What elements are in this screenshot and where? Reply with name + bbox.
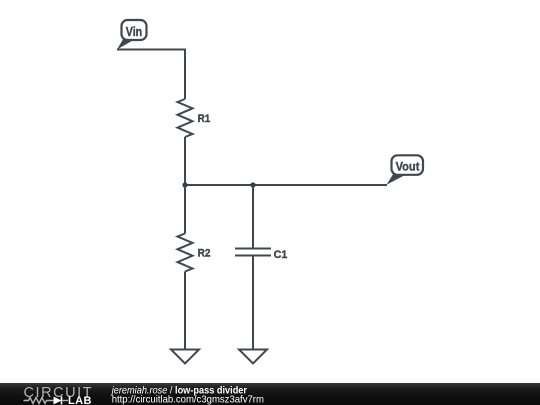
svg-text:R2: R2	[198, 248, 211, 260]
footer credits	[0, 383, 300, 405]
ground (C1)	[239, 350, 267, 364]
svg-text:C1: C1	[274, 249, 288, 261]
junction node A	[182, 182, 187, 187]
ground (R2)	[171, 350, 199, 364]
Vout callout tail	[387, 174, 407, 185]
CircuitLab logo	[0, 383, 110, 405]
footer bar	[0, 383, 540, 405]
wire node A to R2 top	[184, 185, 186, 234]
wire R1 bottom to node A	[184, 137, 186, 185]
Vin callout tail	[117, 38, 134, 50]
logo resistor zigzag	[24, 398, 54, 404]
svg-text:Vin: Vin	[126, 25, 142, 39]
capacitor C1	[235, 249, 271, 256]
svg-text:Vout: Vout	[396, 160, 420, 174]
logo diode	[54, 397, 62, 405]
resistor R1	[178, 99, 193, 137]
node Vin flag	[117, 20, 185, 99]
wire C1 bottom to ground	[252, 256, 254, 350]
wire node B to C1 top	[252, 185, 254, 249]
resistor R2	[178, 234, 193, 272]
svg-text:R1: R1	[198, 113, 211, 125]
node Vout flag	[387, 155, 424, 184]
junction node B (capacitor tap)	[250, 182, 255, 187]
wire node A to Vout	[185, 184, 387, 186]
Vout callout box	[392, 155, 424, 175]
wire R2 bottom to ground	[184, 272, 186, 350]
svg-text:http://circuitlab.com/c3gmsz3a: http://circuitlab.com/c3gmsz3afv7rm	[112, 394, 264, 405]
Vin callout box	[122, 20, 147, 40]
wire Vin to R1 top	[117, 50, 185, 100]
